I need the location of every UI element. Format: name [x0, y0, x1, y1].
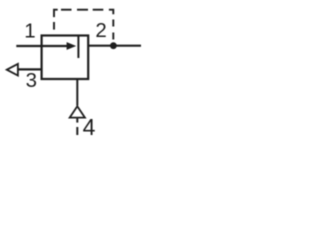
- wire port 2 line: [88, 45, 141, 47]
- flow arrowhead: [67, 42, 77, 50]
- svg-text:4: 4: [83, 114, 96, 140]
- pilot dash right vertical 1: [112, 20, 114, 27]
- pilot dash top 1: [61, 9, 72, 11]
- pilot dash top 3: [93, 9, 104, 11]
- valve seat bar: [77, 36, 79, 59]
- pilot dash below triangle stem: [76, 118, 78, 123]
- wire port 1 line: [16, 45, 41, 47]
- svg-text:2: 2: [95, 19, 106, 42]
- valve body box: [42, 36, 89, 80]
- pilot triangle port 4: [70, 106, 85, 117]
- svg-text:3: 3: [26, 69, 37, 92]
- pilot dash right vertical 2: [112, 33, 114, 40]
- svg-text:1: 1: [24, 19, 35, 42]
- pilot dash top 2: [77, 9, 88, 11]
- pilot dashed corner top-left: [54, 10, 58, 17]
- wire port 3 line: [18, 68, 42, 70]
- pilot dashed corner top-right: [109, 10, 113, 15]
- junction dot node 2: [110, 42, 117, 49]
- pilot dash left vertical: [53, 22, 55, 30]
- exhaust triangle port 3: [7, 64, 18, 76]
- pilot dash below triangle: [76, 127, 78, 135]
- wire port 4 stem: [76, 79, 78, 106]
- wire flow arrow shaft 1-2: [42, 45, 69, 47]
